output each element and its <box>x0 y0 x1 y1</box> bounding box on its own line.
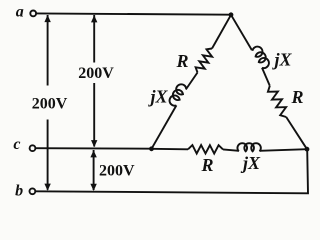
svg-text:200V: 200V <box>99 162 135 179</box>
wire top vertex to jX (right branch) <box>231 15 252 50</box>
svg-text:jX: jX <box>240 153 261 173</box>
wire jX to right vertex (bottom) <box>260 149 308 151</box>
wire R to jX (bottom) <box>223 149 239 150</box>
svg-text:a: a <box>16 4 24 21</box>
resistor R right branch <box>268 86 286 117</box>
svg-text:200V: 200V <box>32 96 68 113</box>
arrowhead down at b (line 3) <box>90 184 96 191</box>
arrowhead up at c (line 3) <box>90 150 96 157</box>
voltage arrow a-b line (upper segment) <box>47 15 49 86</box>
wire left vertex to R (bottom) <box>152 148 189 151</box>
node left-bottom vertex junction dot <box>149 146 154 151</box>
svg-text:R: R <box>175 51 188 71</box>
node top vertex junction dot <box>229 12 234 17</box>
wire a-line (top horizontal) <box>36 13 231 14</box>
svg-text:c: c <box>13 136 20 153</box>
resistor R bottom <box>188 145 223 154</box>
svg-text:jX: jX <box>147 87 168 107</box>
terminal c circle <box>30 145 36 151</box>
svg-text:200V: 200V <box>78 65 114 82</box>
wire R to jX (left branch) <box>186 73 198 90</box>
arrowhead down at c (line 2) <box>91 140 97 147</box>
arrowhead down at b <box>44 184 50 191</box>
arrowhead up at a (line 2) <box>91 15 97 22</box>
svg-text:jX: jX <box>271 50 292 70</box>
wire R to right vertex <box>286 117 307 149</box>
node right-bottom vertex junction dot <box>305 147 310 152</box>
wire jX to left vertex <box>152 105 177 148</box>
inductor jX left branch <box>168 82 188 107</box>
voltage arrow a-b line (lower segment) <box>47 120 49 190</box>
voltage arrow a-c line (upper segment) <box>93 15 95 63</box>
svg-text:R: R <box>200 155 213 175</box>
wire jX to R (right branch) <box>262 68 270 86</box>
voltage arrow c-b line <box>93 150 95 190</box>
inductor jX right branch <box>251 45 270 70</box>
svg-text:b: b <box>15 183 23 200</box>
inductor jX bottom <box>237 143 260 151</box>
arrowhead up at a <box>44 15 50 22</box>
wire top vertex to R (left branch) <box>212 15 231 49</box>
terminal b circle <box>30 188 36 194</box>
resistor R left branch <box>196 49 213 73</box>
svg-text:R: R <box>290 87 303 107</box>
voltage arrow a-c line (lower segment) <box>93 83 95 147</box>
terminal a circle <box>30 11 36 17</box>
wire b-line <box>36 149 309 193</box>
wire c-line <box>36 147 152 150</box>
